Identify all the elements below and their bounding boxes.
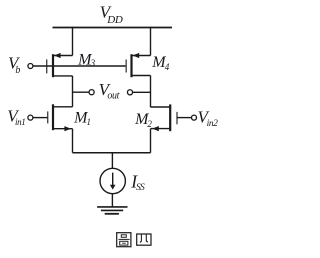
label Vin2 xyxy=(198,107,219,129)
terminal Vout circle right xyxy=(127,90,132,95)
svg-text:SS: SS xyxy=(136,183,145,193)
label Vb xyxy=(8,53,21,76)
label VDD xyxy=(100,2,123,26)
M4 drain line xyxy=(132,75,151,77)
wire VDD rail to M3 source xyxy=(72,27,74,56)
M3 channel bar xyxy=(52,54,54,77)
M2 source arrow xyxy=(152,126,159,131)
label M4 xyxy=(151,54,170,72)
M1 source arrow xyxy=(64,126,71,131)
transistor M3 xyxy=(47,53,73,77)
transistor M1 xyxy=(48,104,73,131)
current source ISS arrow xyxy=(112,173,114,186)
svg-text:in2: in2 xyxy=(207,119,219,129)
M4 channel bar xyxy=(130,54,132,77)
wire Vin1 to M1 gate xyxy=(33,117,48,119)
M1 channel bar xyxy=(52,104,54,130)
label ISS xyxy=(130,171,145,193)
svg-text:DD: DD xyxy=(106,14,123,26)
svg-text:1: 1 xyxy=(87,117,92,127)
M3 gate bar xyxy=(46,59,48,73)
M4 source line xyxy=(132,55,151,57)
wire M2 source down xyxy=(150,129,152,153)
M2 drain line xyxy=(151,106,171,108)
current source ISS circle xyxy=(100,168,125,193)
label Vin1 xyxy=(7,106,25,127)
wire tail node xyxy=(73,152,151,154)
label Vout xyxy=(99,80,120,101)
wire Vout stub left xyxy=(73,91,90,93)
M1 gate bar xyxy=(47,111,49,123)
M2 channel bar xyxy=(169,104,171,131)
wire VDD rail to M4 source xyxy=(150,27,152,56)
svg-text:b: b xyxy=(15,65,20,76)
M3 drain line xyxy=(53,75,73,77)
M4 gate bar xyxy=(125,60,127,73)
wire tail to current source xyxy=(111,153,113,169)
M4 source arrow xyxy=(133,53,140,58)
transistor M4 xyxy=(126,53,150,77)
wire Vout stub right xyxy=(133,91,151,93)
label M3 xyxy=(77,52,96,69)
wire Vb gate net xyxy=(33,65,126,67)
svg-text:in1: in1 xyxy=(15,117,25,127)
M1 drain line xyxy=(53,106,73,108)
wire M4 drain to M2 drain xyxy=(150,76,152,108)
ground xyxy=(97,207,127,214)
terminal Vb circle xyxy=(28,64,33,69)
M2 gate bar xyxy=(176,112,178,124)
wire M1 source down xyxy=(72,129,74,153)
M2 source line xyxy=(151,128,171,130)
svg-text:4: 4 xyxy=(165,62,170,72)
power rail VDD xyxy=(53,27,173,29)
transistor M2 xyxy=(151,104,178,131)
M3 source arrow xyxy=(54,53,61,58)
terminal Vout circle left xyxy=(89,90,94,95)
svg-text:3: 3 xyxy=(90,58,96,68)
label M1 xyxy=(73,109,91,127)
caption figure four: character SI (四) xyxy=(137,234,151,245)
M1 source line xyxy=(53,128,73,130)
wire M2 gate to Vin2 xyxy=(177,117,192,119)
svg-text:2: 2 xyxy=(147,119,152,129)
label M2 xyxy=(134,111,152,129)
wire M3 drain to M1 drain xyxy=(72,76,74,107)
terminal Vin2 circle xyxy=(192,115,197,120)
svg-text:out: out xyxy=(107,90,119,101)
wire current source to ground xyxy=(111,194,113,207)
M3 source line xyxy=(53,55,73,57)
caption figure four: character TU (圖) xyxy=(117,233,131,247)
terminal Vin1 circle xyxy=(28,115,33,120)
